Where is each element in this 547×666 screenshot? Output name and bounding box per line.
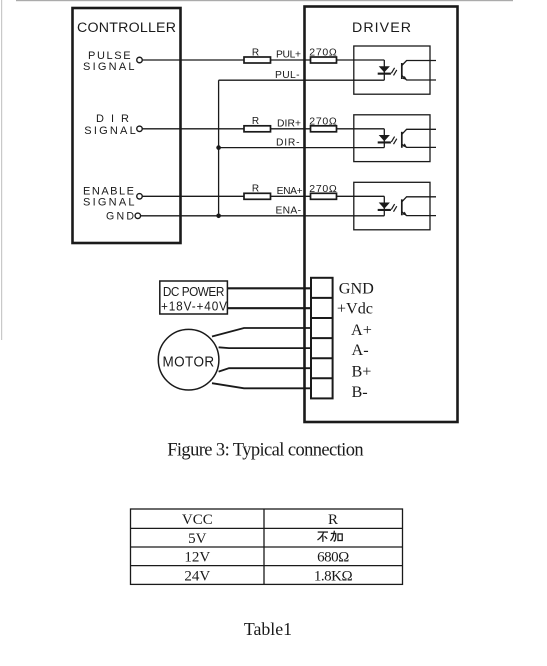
svg-text:680Ω: 680Ω bbox=[317, 550, 349, 566]
svg-text:12V: 12V bbox=[184, 550, 210, 566]
svg-text:24V: 24V bbox=[184, 568, 210, 584]
svg-text:Figure 3: Typical connection: Figure 3: Typical connection bbox=[167, 441, 363, 461]
svg-text:R: R bbox=[328, 512, 338, 528]
svg-text:VCC: VCC bbox=[182, 512, 213, 528]
svg-text:Table1: Table1 bbox=[244, 619, 292, 639]
svg-text:1.8KΩ: 1.8KΩ bbox=[314, 568, 353, 584]
svg-text:5V: 5V bbox=[188, 531, 207, 547]
